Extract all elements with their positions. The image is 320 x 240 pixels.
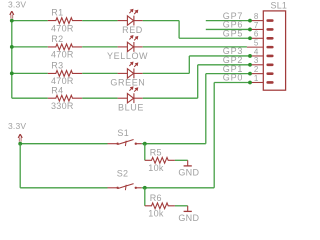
svg-text:S1: S1 bbox=[117, 128, 129, 138]
wire R4 to LED4 bbox=[82, 97, 117, 99]
switch S1 bbox=[108, 140, 142, 147]
svg-text:R1: R1 bbox=[51, 8, 63, 18]
wire R3 to LED3 bbox=[82, 72, 117, 74]
svg-text:R5: R5 bbox=[150, 147, 162, 157]
svg-text:RED: RED bbox=[122, 25, 143, 35]
svg-text:8: 8 bbox=[254, 12, 259, 21]
svg-text:R4: R4 bbox=[51, 85, 63, 95]
svg-text:7: 7 bbox=[254, 21, 259, 30]
node junction rail/R2 bbox=[10, 45, 14, 49]
wire GP1 row bbox=[206, 73, 250, 75]
wire R1 to LED1 bbox=[82, 20, 117, 22]
node junction pin 8 bbox=[248, 19, 252, 23]
wire LED3 to corner bbox=[143, 72, 190, 74]
wire GP0 row bbox=[214, 81, 250, 83]
resistor R5 10k bbox=[145, 157, 175, 163]
wire S1 to junction bbox=[142, 143, 146, 145]
node junction pin 7 bbox=[248, 28, 252, 32]
ground GND (R6) bbox=[184, 206, 192, 212]
svg-text:1: 1 bbox=[254, 74, 259, 83]
pin 8 of SL1 bbox=[250, 19, 274, 22]
svg-text:10k: 10k bbox=[148, 163, 164, 173]
svg-text:R3: R3 bbox=[51, 61, 63, 71]
svg-text:GND: GND bbox=[178, 168, 199, 178]
pin 6 of SL1 bbox=[250, 37, 274, 40]
resistor R4 330R bbox=[48, 95, 82, 101]
svg-text:4: 4 bbox=[254, 47, 259, 56]
svg-text:6: 6 bbox=[254, 30, 259, 39]
wire 3.3V to S1 bbox=[20, 143, 107, 145]
wire net stub GP7 bbox=[206, 20, 250, 22]
svg-text:GND: GND bbox=[178, 213, 199, 223]
svg-text:470R: 470R bbox=[51, 23, 74, 33]
resistor R3 470R bbox=[48, 71, 82, 77]
wire GP2 row to connector bbox=[198, 64, 250, 66]
svg-text:R2: R2 bbox=[51, 34, 63, 44]
svg-text:GP6: GP6 bbox=[223, 20, 243, 30]
wire R4 row from rail bbox=[12, 97, 48, 99]
LED4 BLUE bbox=[118, 87, 143, 103]
wire junction down to R6 bbox=[144, 188, 146, 206]
node junction pin 4 bbox=[248, 54, 252, 58]
pin 2 of SL1 bbox=[250, 72, 274, 75]
wire GP5 row to connector bbox=[179, 37, 250, 39]
wire junction down to R5 bbox=[144, 144, 146, 161]
svg-text:GREEN: GREEN bbox=[110, 78, 145, 88]
ground GND (R5) bbox=[184, 160, 192, 166]
supply +3V3 P2 (bottom) bbox=[18, 134, 22, 141]
LED1 RED bbox=[118, 10, 143, 26]
pin 1 of SL1 bbox=[250, 81, 274, 84]
wire LED2 to connector pin 5 bbox=[143, 46, 247, 48]
svg-text:3.3V: 3.3V bbox=[8, 0, 26, 9]
wire R5 to ground bbox=[175, 159, 188, 161]
svg-text:R6: R6 bbox=[150, 193, 162, 203]
svg-text:BLUE: BLUE bbox=[118, 102, 144, 112]
svg-text:SL1: SL1 bbox=[271, 1, 288, 11]
node junction pin 6 bbox=[248, 36, 252, 40]
pin 5 of SL1 bbox=[247, 46, 274, 49]
svg-text:S2: S2 bbox=[117, 169, 129, 179]
svg-text:YELLOW: YELLOW bbox=[107, 51, 148, 61]
supply +3V3 P1 (top) bbox=[10, 11, 14, 18]
wire corner up to GP2 row bbox=[197, 65, 199, 98]
wire S2 junction to GP0 corner bbox=[145, 187, 214, 189]
svg-text:5: 5 bbox=[254, 39, 259, 48]
wire R2 to LED2 bbox=[82, 46, 117, 48]
pin 7 of SL1 bbox=[250, 28, 274, 31]
resistor R2 470R bbox=[48, 44, 82, 50]
wire corner up to GP3 row bbox=[188, 56, 190, 73]
LED2 YELLOW bbox=[118, 36, 143, 52]
LED3 GREEN bbox=[118, 62, 143, 78]
wire rail to R3 bbox=[12, 72, 48, 74]
resistor R6 10k bbox=[145, 203, 175, 209]
wire S1 junction to GP1 corner bbox=[145, 143, 206, 145]
wire LED4 to corner bbox=[143, 97, 198, 99]
node junction rail/R3 bbox=[10, 72, 14, 76]
svg-text:3: 3 bbox=[254, 56, 259, 65]
pin 4 of SL1 bbox=[250, 55, 274, 58]
node junction rail/R1 bbox=[10, 19, 14, 23]
node junction S2/R6 bbox=[143, 186, 147, 190]
svg-text:GP0: GP0 bbox=[223, 73, 243, 83]
wire GP1 down to S1 bbox=[205, 74, 207, 144]
resistor R1 470R bbox=[48, 18, 82, 24]
wire rail to R2 bbox=[12, 46, 48, 48]
switch S2 bbox=[108, 184, 142, 191]
svg-text:330R: 330R bbox=[51, 101, 74, 111]
node junction supply/S1 bbox=[18, 142, 22, 146]
wire R6 to ground bbox=[175, 205, 188, 207]
connector SL1 body bbox=[263, 11, 285, 90]
pin 3 of SL1 bbox=[250, 64, 274, 67]
svg-text:470R: 470R bbox=[51, 50, 74, 60]
node junction pin 1 bbox=[248, 81, 252, 85]
node junction S1/R5 bbox=[143, 142, 147, 146]
wire GP3 row to connector bbox=[189, 55, 250, 57]
wire rail to R1 bbox=[12, 20, 48, 22]
node junction pin 3 bbox=[248, 63, 252, 67]
svg-text:3.3V: 3.3V bbox=[8, 121, 26, 131]
wire rail down to S2 row bbox=[19, 144, 21, 188]
wire 3.3V rail vertical bbox=[11, 21, 13, 99]
wire S2 to junction bbox=[142, 187, 146, 189]
wire rail to S2 bbox=[20, 187, 107, 189]
svg-text:2: 2 bbox=[254, 65, 259, 74]
wire corner down to GP5 row bbox=[178, 21, 180, 39]
wire GP0 down to S2 bbox=[213, 82, 215, 187]
svg-text:10k: 10k bbox=[148, 209, 164, 219]
wire net stub GP6 bbox=[206, 28, 250, 30]
node junction pin 2 bbox=[248, 72, 252, 76]
wire LED1 to corner bbox=[143, 20, 179, 22]
